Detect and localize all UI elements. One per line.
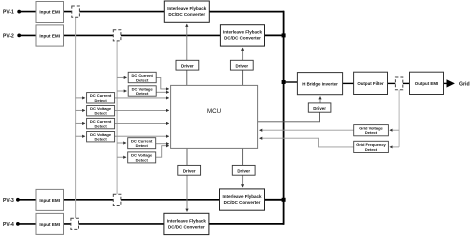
- svg-text:Detect: Detect: [94, 137, 107, 142]
- wire MCU to driver4: [242, 148, 244, 165]
- block Output Filter: [354, 72, 388, 94]
- wire MCU to driver2: [242, 70, 244, 85]
- svg-text:DC/DC Converter: DC/DC Converter: [224, 200, 261, 205]
- wire PV-1 line: [21, 11, 164, 13]
- svg-text:Detect: Detect: [94, 111, 107, 116]
- svg-text:Detect: Detect: [94, 98, 107, 103]
- junction bus/PV-3: [282, 198, 286, 202]
- wire PV-3 flyback output to bus: [265, 199, 285, 201]
- wire A voltage detect to MCU: [156, 91, 169, 93]
- wire sensor2/sensor3 vertical: [116, 41, 118, 194]
- wire sensor1/sensor4 vertical: [75, 17, 77, 218]
- svg-text:Input EMI: Input EMI: [39, 222, 60, 227]
- block Driver 2: [230, 60, 253, 70]
- block Input EMI 3: [36, 189, 64, 210]
- svg-text:Interleave Flyback: Interleave Flyback: [167, 6, 207, 11]
- svg-text:Detect: Detect: [136, 78, 149, 83]
- wire output sensor to grid frequency detect: [390, 146, 399, 148]
- wire DC bus vertical: [283, 11, 285, 225]
- node PV-3 terminal: [16, 198, 20, 202]
- svg-text:DC/DC Converter: DC/DC Converter: [168, 12, 205, 17]
- block DC Voltage Detect C: [87, 132, 115, 142]
- block DC Voltage Detect A: [128, 86, 156, 96]
- wire B voltage detect to MCU: [115, 109, 169, 111]
- block DC Current Detect C: [87, 118, 115, 128]
- svg-text:Interleave Flyback: Interleave Flyback: [223, 30, 263, 35]
- block Driver 3: [178, 165, 201, 175]
- wire driver1 to flyback1: [186, 24, 188, 60]
- wire D voltage detect to MCU: [156, 146, 169, 158]
- svg-text:Input EMI: Input EMI: [39, 10, 60, 15]
- svg-text:Detect: Detect: [94, 124, 107, 129]
- block Driver 1: [176, 60, 199, 70]
- svg-text:Input EMI: Input EMI: [39, 33, 60, 38]
- sensor tap 3 (dashed): [113, 194, 121, 205]
- block Interleave Flyback DC/DC Converter 4: [164, 213, 209, 234]
- sensor tap 5 output (dashed): [395, 77, 402, 90]
- block Interleave Flyback DC/DC Converter 2: [220, 25, 264, 46]
- wire A current detect to MCU: [156, 77, 169, 89]
- sensor tap 4 (dashed): [71, 218, 79, 229]
- wire sensor3 to D current detect: [117, 142, 126, 144]
- svg-text:Grid: Grid: [459, 82, 470, 88]
- wire D current detect to MCU: [156, 143, 169, 145]
- svg-text:Driver: Driver: [237, 169, 250, 174]
- wire output sensor down: [398, 90, 400, 147]
- svg-text:Interleave Flyback: Interleave Flyback: [167, 218, 207, 223]
- wire sensor3 to D voltage detect: [117, 156, 126, 158]
- node PV-4 terminal: [16, 222, 20, 226]
- block DC Current Detect B: [87, 93, 115, 103]
- svg-text:Detect: Detect: [136, 143, 149, 148]
- block Interleave Flyback DC/DC Converter 3: [220, 189, 265, 210]
- svg-text:H Bridge Inverter: H Bridge Inverter: [302, 81, 338, 86]
- svg-text:DC/DC Converter: DC/DC Converter: [224, 36, 261, 41]
- svg-text:PV-3: PV-3: [3, 198, 14, 204]
- wire C voltage detect to MCU: [115, 135, 169, 137]
- svg-text:Detect: Detect: [136, 91, 149, 96]
- wire output sensor to Output EMI: [403, 82, 410, 84]
- wire Output EMI to Grid arrow: [444, 82, 454, 84]
- block Output EMI: [410, 72, 444, 94]
- svg-text:MCU: MCU: [207, 108, 221, 115]
- svg-text:Driver: Driver: [235, 64, 248, 69]
- svg-text:Driver: Driver: [313, 106, 326, 111]
- block Driver 5: [308, 103, 331, 112]
- wire grid frequency detect to MCU: [260, 138, 354, 147]
- wire output sensor to grid voltage detect: [390, 129, 399, 131]
- wire C current detect to MCU: [115, 122, 169, 124]
- wire sensor4 to C voltage detect: [76, 135, 85, 137]
- block Grid Frequency Detect: [354, 141, 389, 152]
- junction bus/PV-2: [282, 33, 286, 37]
- wire sensor2 to A current detect: [117, 76, 126, 78]
- wire driver4 to flyback3: [242, 175, 244, 187]
- wire sensor4 to C current detect: [76, 122, 85, 124]
- block H Bridge Inverter: [297, 73, 342, 95]
- wire PV-2 line: [21, 34, 220, 36]
- svg-text:Detect: Detect: [136, 157, 149, 162]
- wire grid voltage detect to MCU: [260, 129, 354, 131]
- svg-text:PV-1: PV-1: [3, 10, 14, 16]
- wire PV-2 flyback output to bus: [265, 34, 285, 36]
- sensor tap 2 (dashed): [113, 30, 121, 41]
- wire PV-3 line: [20, 199, 220, 201]
- wire sensor2 to A voltage detect: [117, 90, 126, 92]
- wire bus to H-bridge: [284, 81, 298, 83]
- wire driver5 to H-bridge: [319, 97, 321, 103]
- wire MCU to driver3: [186, 148, 188, 165]
- wire MCU to driver5: [258, 112, 320, 122]
- node PV-1 terminal: [17, 10, 21, 14]
- wire PV-4 flyback output to bus: [209, 223, 284, 225]
- svg-text:DC/DC Converter: DC/DC Converter: [168, 224, 205, 229]
- svg-text:Detect: Detect: [365, 147, 378, 152]
- wire B current detect to MCU: [115, 97, 169, 99]
- block Grid Voltage Detect: [354, 125, 389, 136]
- block Input EMI 1: [36, 2, 64, 23]
- block Driver 4: [232, 165, 255, 175]
- sensor tap 1 (dashed): [72, 6, 80, 17]
- block DC Voltage Detect B: [87, 106, 115, 116]
- svg-text:Driver: Driver: [181, 64, 194, 69]
- svg-text:Driver: Driver: [183, 169, 196, 174]
- wire MCU to driver1: [186, 70, 188, 85]
- wire driver3 to flyback4: [186, 175, 188, 211]
- wire H-bridge to Output Filter: [343, 82, 354, 84]
- svg-text:Input EMI: Input EMI: [39, 198, 60, 203]
- block DC Voltage Detect D: [128, 152, 156, 163]
- svg-text:Output Filter: Output Filter: [357, 81, 384, 86]
- block Interleave Flyback DC/DC Converter 1: [164, 1, 209, 22]
- node PV-2 terminal: [17, 34, 21, 38]
- block Input EMI 2: [36, 25, 64, 46]
- wire sensor1 to B voltage detect: [76, 109, 85, 111]
- block MCU: [171, 85, 258, 148]
- block DC Current Detect D: [128, 138, 156, 149]
- block Input EMI 4: [36, 213, 64, 234]
- svg-text:PV-2: PV-2: [3, 33, 14, 39]
- wire PV-1 flyback output to bus: [209, 11, 284, 13]
- block DC Current Detect A: [128, 72, 156, 82]
- svg-text:PV-4: PV-4: [3, 222, 14, 228]
- wire PV-4 line: [20, 223, 164, 225]
- svg-text:Interleave Flyback: Interleave Flyback: [222, 194, 262, 199]
- svg-text:Detect: Detect: [365, 130, 378, 135]
- junction bus/H-bridge: [282, 80, 286, 84]
- svg-text:Output EMI: Output EMI: [415, 81, 438, 86]
- wire sensor1 to B current detect: [76, 97, 85, 99]
- wire Output Filter to output sensor: [388, 82, 396, 84]
- wire driver2 to flyback2: [242, 48, 244, 60]
